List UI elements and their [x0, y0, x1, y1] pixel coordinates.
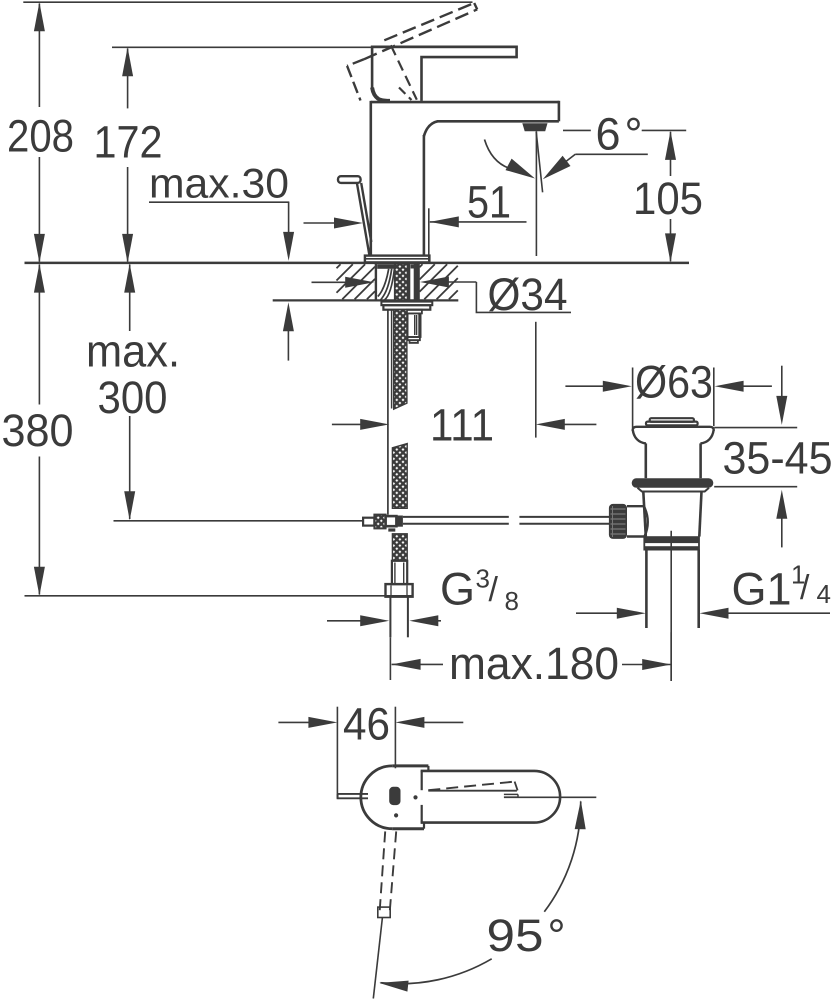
hole right dark bar 2 — [414, 264, 418, 300]
faucet body top line — [371, 101, 559, 104]
hole stud square — [411, 264, 414, 268]
drain seal collar — [632, 478, 714, 488]
dimension 380 line lower — [38, 457, 40, 595]
pull rod segment 2 bottom — [519, 523, 609, 525]
hole hose curve 3 — [385, 269, 395, 300]
svg-text:max.: max. — [86, 326, 180, 377]
topview base plate top step — [427, 766, 429, 771]
dashed lever interior line — [391, 45, 417, 99]
drain pipe left side — [645, 550, 648, 628]
dashed raised lever line B — [364, 9, 477, 59]
95deg arc lower segment — [380, 959, 491, 984]
extension line drain center — [670, 632, 672, 681]
topview joint line lower — [421, 805, 423, 823]
hose connector — [392, 561, 407, 584]
rod clamp end cap — [363, 518, 374, 526]
topview swivel spout cap — [378, 907, 390, 917]
dimension O63 arrow left — [565, 385, 603, 387]
mounting washer — [381, 302, 432, 306]
faucet column left edge — [369, 101, 372, 256]
drain knurled knob — [609, 504, 627, 539]
svg-text:°: ° — [548, 910, 566, 961]
dimension 3545 upper line — [781, 366, 783, 400]
dimension 105 line lower — [670, 219, 672, 261]
svg-text:G: G — [440, 564, 475, 615]
water stream 6deg line — [536, 132, 542, 193]
extension line faucet center bottom — [389, 637, 391, 680]
svg-text:°: ° — [625, 109, 643, 160]
hole braid strip — [395, 264, 408, 301]
O34 leader — [476, 282, 571, 312]
svg-text:300: 300 — [98, 372, 168, 423]
stud body — [408, 313, 421, 337]
water stream vertical line — [535, 131, 537, 256]
6deg leader horizontal — [575, 153, 648, 155]
deck hole right wall — [417, 263, 419, 301]
braided shank segment A — [394, 310, 407, 410]
faucet base plate — [365, 256, 430, 263]
topview rod end cap — [337, 794, 339, 798]
deck hatching left slab — [337, 264, 341, 268]
hose nut inner 1 — [390, 586, 392, 597]
pull rod segment 1 top — [403, 516, 509, 518]
dimension 208 line lower — [38, 157, 40, 262]
hose connector inner 1 — [394, 563, 396, 585]
max30 arrow up shaft — [287, 328, 289, 361]
drain neck curve right — [700, 430, 713, 443]
95deg arc upper segment — [544, 801, 580, 911]
topview base plate top edge — [392, 764, 428, 767]
topview lever bottom edge — [428, 790, 517, 792]
rod clamp dark block — [396, 516, 403, 527]
svg-text:Ø63: Ø63 — [635, 356, 713, 407]
G114 arrow right — [700, 608, 729, 619]
dashed lever interior short — [399, 88, 412, 101]
dimension max300 line lower — [129, 416, 131, 519]
rod clamp X block — [374, 515, 385, 529]
dimension 172 line upper — [127, 49, 129, 109]
svg-text:46: 46 — [343, 699, 390, 750]
deck hole left wall — [375, 263, 377, 301]
drain neck right side — [699, 443, 702, 478]
dimension max300 arrow up — [124, 264, 135, 293]
pop-up rod line left — [357, 183, 369, 255]
topview lever tip notch bottom — [504, 796, 518, 798]
extension line 3545 lower — [714, 486, 797, 488]
dimension 380 arrow up — [34, 264, 45, 293]
topview rod bottom line — [338, 797, 368, 799]
rod clamp nub — [388, 528, 395, 531]
topview joint line upper — [421, 771, 423, 790]
svg-text:Ø34: Ø34 — [488, 269, 568, 320]
svg-text:4: 4 — [817, 579, 831, 609]
dimension 105 arrow up — [665, 131, 676, 160]
svg-text:6: 6 — [596, 109, 621, 160]
stud right edge — [418, 313, 421, 337]
hose nut — [386, 584, 413, 597]
braided shank segment C — [392, 534, 407, 561]
extension line O63 left — [632, 368, 634, 429]
stud inner line 1 — [414, 315, 416, 335]
drain pipe right side — [697, 550, 700, 628]
drain body right side — [699, 492, 701, 537]
dimension O63 arrow right — [715, 381, 744, 392]
hose left line — [389, 597, 391, 638]
pop-up rod line right — [361, 183, 371, 242]
braided shank segment B — [392, 444, 407, 509]
hose connector inner 2 — [403, 563, 405, 585]
dashed raised lever end — [474, 3, 477, 9]
svg-text:51: 51 — [467, 177, 511, 228]
95deg arrowhead bottom — [379, 981, 408, 992]
topview base plate bottom step — [423, 823, 425, 829]
pull rod segment 2 top — [519, 516, 609, 518]
dimension 380 arrow down — [34, 567, 45, 596]
drain outlet top — [627, 505, 644, 507]
hole hose dark top bar — [377, 264, 394, 269]
dimension 208 arrow up — [34, 2, 45, 31]
shank inner line — [391, 310, 393, 409]
drain ring outline — [644, 537, 699, 550]
G114 arrow left — [576, 612, 617, 614]
G38 arrow left — [327, 620, 362, 622]
pop-up rod knob — [338, 176, 361, 183]
topview dot right — [413, 795, 417, 799]
rod clamp white square — [386, 516, 397, 526]
dimension 46 arrow right — [395, 717, 424, 728]
6deg right arrowhead — [543, 156, 571, 180]
dimension max180 right — [622, 664, 671, 666]
dimension 105 arrow down — [665, 233, 676, 262]
6deg left arrowhead — [506, 159, 536, 179]
dimension 105 line upper — [670, 132, 672, 176]
faucet spout right edge — [558, 101, 561, 122]
drain cap top — [650, 418, 694, 422]
hose nut inner 2 — [406, 586, 408, 597]
faucet spout underside — [437, 120, 559, 123]
svg-text:G1: G1 — [732, 564, 792, 615]
svg-text:8: 8 — [505, 586, 519, 616]
shank left line — [387, 310, 389, 515]
topview lever tip notch end — [517, 794, 519, 797]
6deg arc tail — [485, 140, 514, 170]
dimension 172 arrow down — [122, 234, 133, 263]
faucet spout-to-column curve — [424, 121, 438, 136]
svg-text:max.180: max.180 — [449, 638, 619, 689]
deck surface line — [25, 262, 690, 265]
topview swivel spout dashed left — [380, 831, 386, 911]
extension line O63 right — [713, 368, 715, 427]
dimension 111 arrow right — [536, 419, 565, 430]
dimension 208 line upper — [38, 4, 40, 108]
hole hose curve 2 — [381, 269, 392, 300]
dashed raised lever left top — [347, 59, 364, 66]
svg-text:105: 105 — [633, 173, 703, 224]
pop-up rod pointer arrow — [304, 222, 337, 224]
deck hatching right slab — [420, 264, 423, 267]
svg-text:380: 380 — [2, 405, 74, 456]
faucet lever base bottom curve — [372, 88, 390, 101]
dashed raised lever left edge — [347, 66, 360, 101]
hose right line — [407, 597, 409, 638]
drain outlet bottom — [627, 535, 646, 537]
dimension max300 arrow down — [124, 491, 135, 520]
hole hose curve 1 — [378, 269, 389, 297]
svg-text:/: / — [800, 569, 810, 607]
dimension 51 arrowhead — [430, 216, 459, 227]
stud bracket top — [407, 310, 422, 314]
6deg label line right — [642, 129, 687, 131]
dimension 3545 lower line — [781, 515, 783, 547]
max30 leader vertical — [288, 202, 290, 254]
topview swivel spout dashed right — [390, 831, 396, 911]
drain cap lip — [646, 422, 698, 426]
6deg leader diagonal — [549, 154, 575, 174]
dimension 172 line lower — [127, 167, 129, 262]
dimension 46 arrow left — [278, 721, 310, 723]
95deg arrowhead top — [575, 800, 586, 829]
topview lever tip line — [515, 782, 518, 791]
svg-text:/: / — [489, 571, 499, 609]
extension line 172 ref — [112, 46, 517, 48]
topview dot lower — [394, 813, 398, 817]
svg-text:max.30: max.30 — [149, 159, 289, 206]
svg-text:111: 111 — [430, 400, 494, 451]
drain outlet concave arc — [644, 506, 648, 536]
drain ring bottom band — [644, 546, 699, 549]
drain neck left side — [644, 443, 647, 478]
dimension 51 line — [430, 221, 527, 223]
faucet base plate inner line — [366, 258, 429, 260]
dimension 172 arrow up — [122, 47, 133, 76]
topview lever dashed edge — [428, 782, 514, 791]
topview lever tip notch top — [504, 793, 518, 795]
svg-text:208: 208 — [7, 111, 74, 162]
max30 arrow down — [283, 232, 294, 261]
topview rod top line — [338, 793, 368, 795]
aerator spout outlet — [522, 123, 547, 131]
dashed raised lever line A — [384, 3, 474, 40]
topview 46 extension right — [394, 707, 396, 769]
dimension 3545 arrow up — [776, 490, 787, 519]
faucet column right edge — [423, 135, 426, 256]
max30 arrow up at deck bottom — [283, 302, 294, 331]
drain collar lip — [638, 488, 710, 492]
dimension 208 arrow down — [34, 234, 45, 263]
svg-text:95: 95 — [487, 910, 544, 961]
extension line 51 — [428, 208, 430, 260]
G38 arrow right — [409, 615, 438, 626]
extension line max300 bottom — [114, 520, 363, 522]
topview cartridge blob — [389, 787, 400, 805]
pull rod segment 1 bottom — [403, 523, 509, 525]
hole pointer left — [312, 281, 349, 283]
stud bracket bottom — [408, 337, 420, 340]
stud inner line 2 — [416, 315, 418, 335]
6deg label line left — [563, 129, 591, 131]
topview body capsule — [421, 771, 561, 823]
dimension 111 arrow left — [332, 423, 362, 425]
deck bottom line — [273, 299, 459, 301]
faucet lever solid outline — [372, 47, 516, 101]
topview base plate arc — [361, 766, 392, 829]
dimension 380 line upper — [38, 265, 40, 405]
topview 46 extension left — [336, 707, 338, 800]
topview swivel reference line — [373, 918, 382, 999]
extension line 380 bottom — [25, 595, 412, 597]
drain centerline — [670, 531, 672, 681]
topview base plate bottom edge — [392, 827, 424, 830]
drain neck curve left — [633, 430, 646, 443]
stud foot — [410, 340, 418, 343]
svg-text:35-45: 35-45 — [723, 433, 833, 484]
mounting nut — [383, 305, 430, 310]
drain ring top band — [644, 537, 699, 543]
extension line 111 right — [535, 322, 537, 438]
extension line top (208 ref) — [23, 1, 472, 3]
dimension max300 line upper — [129, 265, 131, 332]
topview centerline — [504, 796, 596, 798]
drain body left side — [643, 492, 646, 537]
hole right dark bar 1 — [407, 264, 410, 300]
max30 underline — [149, 201, 289, 203]
dimension max180 left — [392, 663, 443, 665]
hole pointer right — [447, 281, 476, 283]
extension line 3545 upper — [714, 427, 797, 429]
dimension 3545 arrow down — [776, 396, 787, 425]
drain flange — [633, 427, 714, 431]
